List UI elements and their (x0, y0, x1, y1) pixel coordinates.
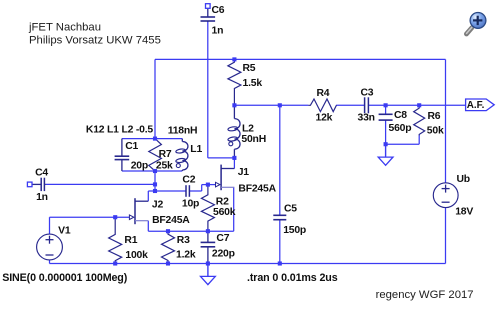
svg-text:12k: 12k (316, 113, 333, 124)
svg-text:C2: C2 (182, 174, 195, 185)
svg-text:18V: 18V (455, 206, 473, 217)
svg-text:Ub: Ub (457, 174, 470, 185)
svg-text:V1: V1 (58, 226, 71, 237)
svg-text:SINE(0 0.000001 100Meg): SINE(0 0.000001 100Meg) (2, 272, 128, 284)
svg-text:C7: C7 (216, 233, 229, 244)
svg-text:regency WGF 2017: regency WGF 2017 (376, 289, 474, 301)
svg-text:R3: R3 (177, 235, 190, 246)
svg-text:1n: 1n (212, 26, 224, 37)
svg-text:1.2k: 1.2k (176, 250, 196, 261)
svg-text:R1: R1 (124, 235, 137, 246)
svg-text:J1: J1 (238, 167, 250, 178)
svg-text:C5: C5 (284, 204, 297, 215)
svg-text:C1: C1 (125, 141, 138, 152)
svg-text:10p: 10p (182, 198, 199, 209)
svg-text:BF245A: BF245A (152, 215, 190, 226)
svg-text:33n: 33n (358, 113, 375, 124)
svg-text:560p: 560p (389, 123, 412, 134)
svg-text:50k: 50k (427, 126, 444, 137)
svg-text:K12 L1 L2 -0.5: K12 L1 L2 -0.5 (86, 124, 153, 135)
svg-text:A.F.: A.F. (467, 100, 485, 111)
svg-text:R6: R6 (428, 111, 441, 122)
svg-text:J2: J2 (152, 200, 164, 211)
svg-text:C6: C6 (212, 5, 225, 16)
svg-text:1.5k: 1.5k (243, 78, 263, 89)
svg-text:.tran 0 0.01ms 2us: .tran 0 0.01ms 2us (247, 272, 338, 284)
svg-text:220p: 220p (212, 249, 235, 260)
svg-text:118nH: 118nH (168, 126, 198, 137)
svg-text:R4: R4 (317, 88, 330, 99)
svg-text:Philips Vorsatz UKW 7455: Philips Vorsatz UKW 7455 (29, 35, 161, 47)
svg-text:150p: 150p (283, 225, 306, 236)
svg-text:560k: 560k (213, 207, 236, 218)
svg-text:25k: 25k (156, 161, 173, 172)
svg-text:1n: 1n (36, 192, 48, 203)
svg-text:L1: L1 (190, 144, 202, 155)
svg-text:R2: R2 (216, 197, 229, 208)
svg-text:R5: R5 (243, 63, 256, 74)
svg-text:jFET Nachbau: jFET Nachbau (28, 22, 101, 34)
svg-text:BF245A: BF245A (238, 184, 276, 195)
svg-text:20p: 20p (131, 161, 148, 172)
svg-text:C3: C3 (361, 88, 374, 99)
svg-text:50nH: 50nH (241, 134, 266, 145)
svg-text:L2: L2 (242, 124, 254, 135)
svg-text:C4: C4 (35, 168, 48, 179)
svg-text:R7: R7 (159, 149, 172, 160)
svg-text:100k: 100k (125, 250, 148, 261)
svg-text:C8: C8 (394, 110, 407, 121)
